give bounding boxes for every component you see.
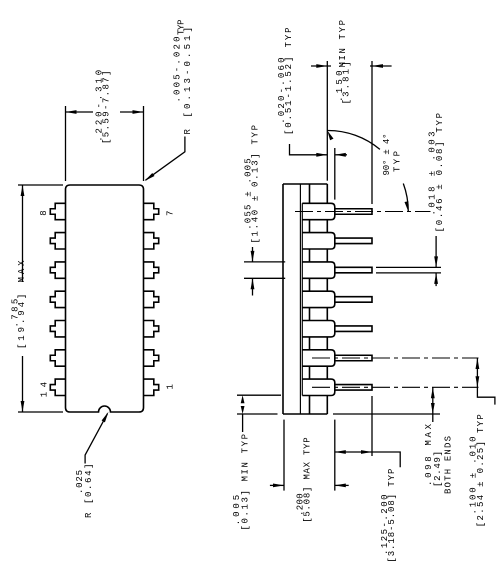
svg-text:R [0.64]: R [0.64] [84,464,94,519]
pin 10 (top view, left row) [50,262,65,278]
side view body parting line B (between shoulders) [301,203,303,395]
pin 1 lead (side view) [335,385,372,391]
svg-text:[2.49]: [2.49] [433,451,443,487]
pin 7 shoulder (side view) [302,203,335,219]
svg-text:[0.46 ± 0.08] TYP: [0.46 ± 0.08] TYP [435,113,445,232]
package body outline (top view) [66,185,144,412]
side view body bottom face edge (segmented) [326,184,328,414]
pin 12 (top view, left row) [50,321,65,337]
svg-text:90° ± 4°: 90° ± 4° [382,134,392,176]
dimension .150 [3.81] MIN TYP lead length [311,20,392,204]
pin 4 (top view, right row) [144,291,159,307]
svg-text:[19.94] MAX: [19.94] MAX [17,260,27,349]
pin 7 (top view, right row) [144,203,159,219]
side view body outline [283,184,327,414]
dimension .785 [19.94] MAX body length [10,185,63,412]
pin 8 (top view, left row) [50,203,65,219]
side view body parting line A [299,184,301,414]
pin 5 lead (side view) [335,267,372,273]
dimension .220-.310 [5.59-7.87] body width [66,70,144,181]
pin 6 lead (side view) [335,238,372,244]
pin 7 centerline (dash-dot) [295,211,431,213]
pin 1 centerline (dash-dot) [312,386,479,388]
pin 2 shoulder (side view) [302,350,335,366]
svg-text:TYP: TYP [176,20,186,36]
svg-text:7: 7 [166,211,176,216]
svg-text:[1.40 ± 0.13] TYP: [1.40 ± 0.13] TYP [251,125,261,244]
pin 6 shoulder (side view) [302,233,335,249]
svg-text:[5.59-7.87]: [5.59-7.87] [102,71,112,145]
dimension .018 [0.46] TYP lead thickness [376,113,445,286]
pin 7 lead (side view) [335,209,372,215]
side view body inner line (segmented) [309,184,311,414]
pin 6 (top view, right row) [144,233,159,249]
svg-text:[2.54 ± 0.25] TYP: [2.54 ± 0.25] TYP [476,414,486,527]
pin 1 (top view, right row) [144,379,159,395]
svg-text:[0.13] MIN TYP: [0.13] MIN TYP [240,434,250,531]
svg-text:MIN TYP: MIN TYP [338,20,348,68]
pin 4 lead (side view) [335,297,372,303]
pin 3 shoulder (side view) [302,321,335,337]
pin 4 shoulder (side view) [302,291,335,307]
dimension .100 [2.54] TYP lead pitch [468,358,495,527]
dimension .200 [5.08] MAX TYP body thickness [270,420,349,523]
svg-text:TYP: TYP [393,151,403,172]
pin 3 lead (side view) [335,326,372,332]
svg-text:[0.51-1.52] TYP: [0.51-1.52] TYP [284,27,294,135]
svg-text:.005-.020: .005-.020 [172,37,182,103]
pin 13 (top view, left row) [50,350,65,366]
svg-text:[3.18-5.08] TYP: [3.18-5.08] TYP [387,469,397,563]
dimension .098 [2.49] MAX BOTH ENDS overhang [333,387,454,494]
label R .025 [0.64] index notch radius with leader [75,412,109,518]
pin number 8 label [39,210,49,215]
pin 11 (top view, left row) [50,291,65,307]
pin 1 shoulder (side view) [302,379,335,395]
dimension .020-.060 [0.51-1.52] TYP shoulder standoff [277,27,347,199]
pin number 14 label [40,382,50,397]
pin 9 (top view, left row) [50,233,65,249]
svg-text:BOTH ENDS: BOTH ENDS [444,436,454,494]
pin number 7 label [166,211,176,216]
pin 3 (top view, right row) [144,321,159,337]
pin 2 lead (side view) [335,355,372,361]
pin number 1 label [166,384,176,389]
pin 14 (top view, left row) [50,379,65,395]
pin 2 (top view, right row) [144,350,159,366]
pin 2 centerline (dash-dot) [312,357,479,359]
pin 5 (top view, right row) [144,262,159,278]
pin 5 shoulder (side view) [302,262,335,278]
label R .005-.020 [0.13-0.51] TYP corner radius with leader [145,20,194,182]
dimension .005 [0.13] MIN TYP seal gap [232,395,281,530]
svg-text:1: 1 [166,384,176,389]
angular dimension 90 deg +/- 4 deg TYP with arc [327,130,408,211]
svg-text:[5.08] MAX TYP: [5.08] MAX TYP [303,437,313,523]
svg-text:8: 8 [39,210,49,215]
dimension .055 [1.40] TYP shoulder width [244,125,286,296]
dimension .125-.200 [3.18-5.08] TYP lead length below standoff [335,396,400,563]
